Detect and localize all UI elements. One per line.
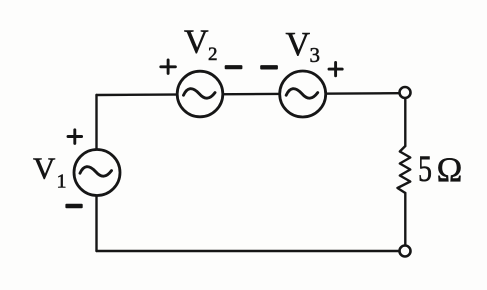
svg-text:V: V xyxy=(33,150,56,185)
svg-text:V: V xyxy=(286,26,311,63)
svg-text:Ω: Ω xyxy=(437,151,463,190)
svg-text:3: 3 xyxy=(310,43,321,67)
svg-text:5: 5 xyxy=(418,149,432,190)
svg-text:1: 1 xyxy=(57,171,67,193)
svg-text:2: 2 xyxy=(208,44,218,65)
svg-text:V: V xyxy=(184,23,209,60)
